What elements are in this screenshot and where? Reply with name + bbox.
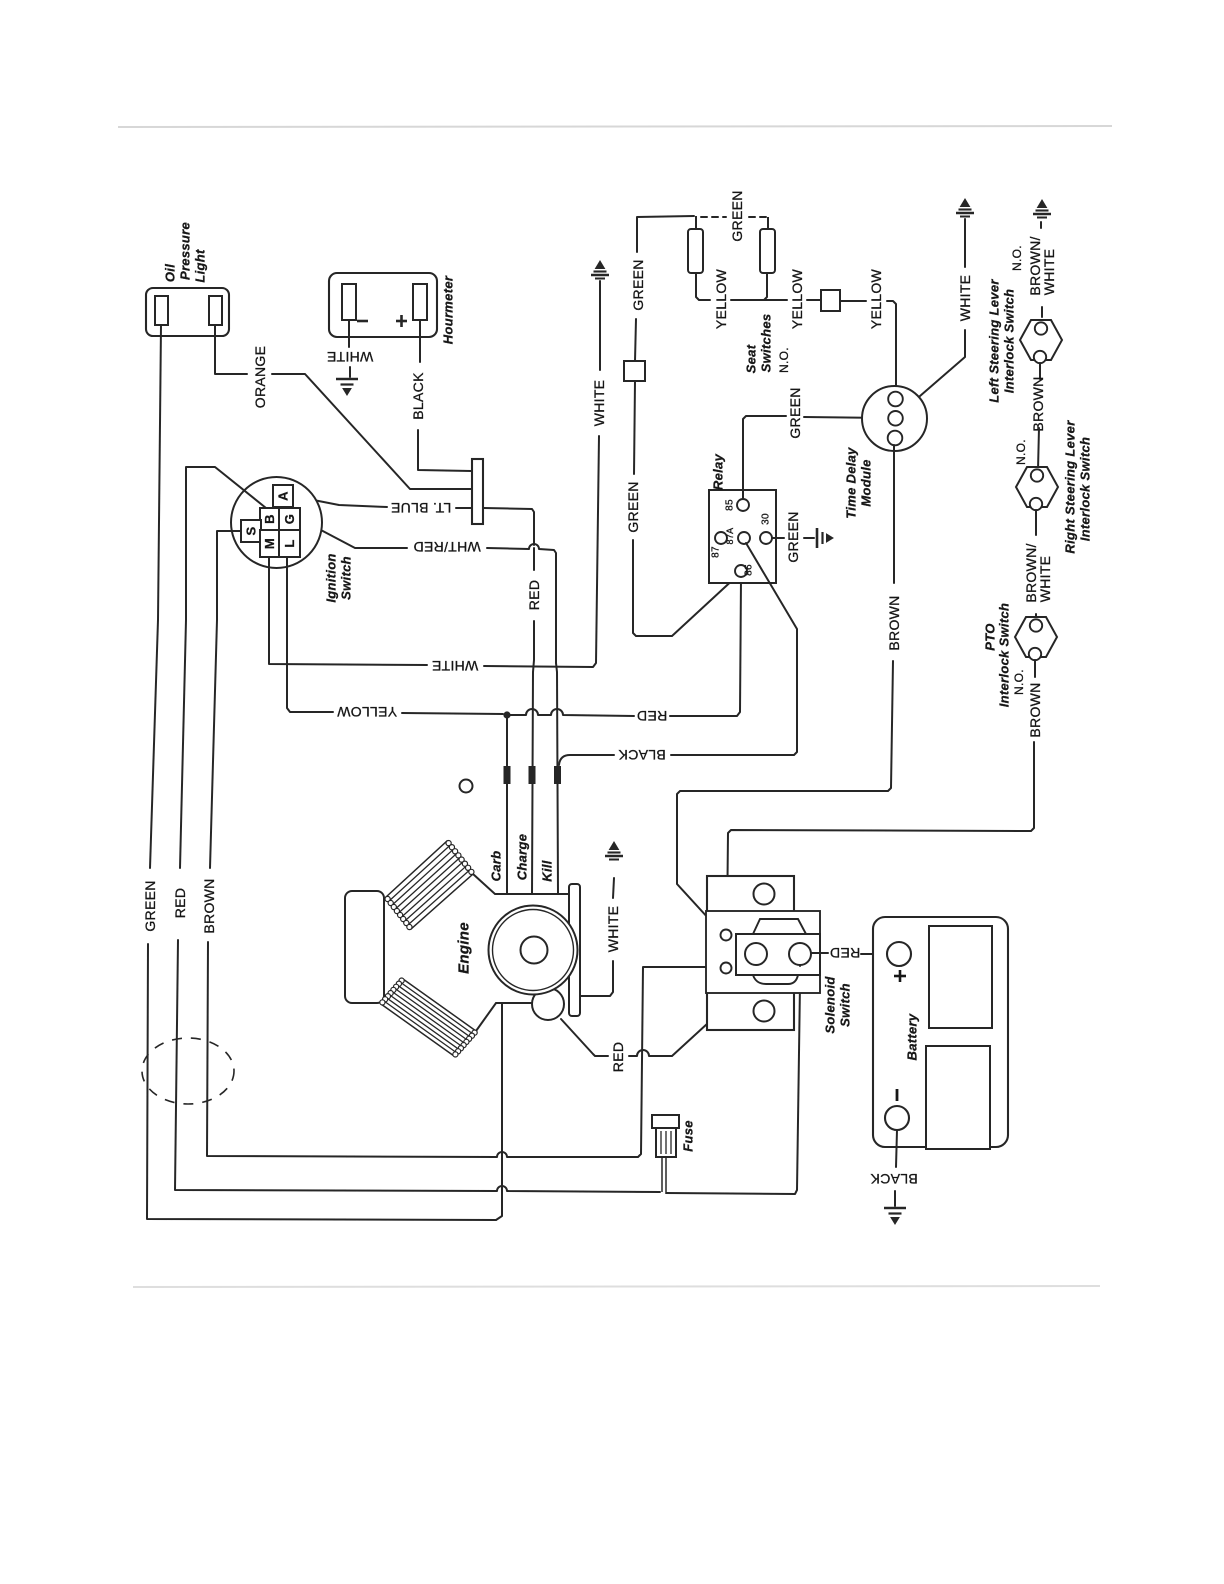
svg-text:YELLOW: YELLOW [789,268,805,329]
ignition switch [231,477,322,568]
solenoid body section [706,911,820,993]
battery plus sign [894,970,906,982]
svg-text:WHITE: WHITE [1037,556,1053,603]
wire BROWN between hexes upper [1039,363,1041,379]
chassis arrow WHITE tdm [956,199,974,217]
wire GREEN branch to square [635,319,636,361]
ground hourmeter [336,379,358,395]
wire BLACK hourmeter to junction bar [418,430,471,471]
solenoid small pin 1 [721,930,732,941]
engine mounting bracket bar [569,884,580,1016]
svg-text:GREEN: GREEN [142,880,158,931]
wire GREEN dashed seat link b [749,216,768,218]
svg-text:YELLOW: YELLOW [336,704,397,720]
solenoid mounting hole bottom [754,1001,775,1022]
relay pin 30 [760,532,772,544]
wire GREEN square to label [634,381,635,474]
svg-text:30: 30 [761,513,772,525]
wire GREEN riser to engine [496,1004,502,1220]
svg-text:B: B [262,514,277,524]
svg-text:A: A [276,491,291,501]
wire GREEN oil-light vertical upper [150,325,161,868]
svg-text:87A: 87A [725,528,735,545]
free connector circle [460,780,473,793]
svg-text:Pressure: Pressure [178,222,193,280]
wire YELLOW seat mid [731,299,787,301]
wire WHITE riser top [599,281,601,370]
wire hourmeter minus lead [348,320,350,347]
oil pressure light [146,288,229,336]
svg-text:Time Delay: Time Delay [844,447,859,519]
svg-text:LT. BLUE: LT. BLUE [391,500,452,516]
solenoid keyhole cap [753,919,806,984]
right steering lever interlock switch [1016,467,1058,510]
wire RED solenoid stub [811,952,828,954]
wire interlock chain stub1 [1041,307,1043,317]
svg-text:GREEN: GREEN [630,259,646,310]
wire GREEN seat-switch branch top [637,216,694,252]
svg-text:WHITE: WHITE [1041,249,1057,296]
svg-text:Engine: Engine [456,922,473,974]
wire YELLOW ignition L segment [287,557,333,712]
wire GREEN 30 ground stub [804,537,814,539]
time delay module [862,386,927,451]
fuse stem [662,1157,666,1192]
wire GREEN relay 30 stub [772,537,784,539]
wire hourmeter ground stub [349,367,351,377]
solenoid small pin 2 [721,963,732,974]
svg-text:RED: RED [610,1042,626,1072]
left steering lever interlock switch [1020,320,1062,363]
solenoid terminal stud right [789,943,811,965]
wire BROWN ignition S upper [210,531,241,868]
svg-text:PTO: PTO [983,623,998,650]
svg-text:GREEN: GREEN [787,387,803,438]
svg-text:Carb: Carb [489,851,504,882]
svg-text:N.O.: N.O. [777,347,791,373]
wire LT. BLUE bar to charge drop [484,508,534,545]
svg-text:Module: Module [859,459,874,506]
svg-text:WHITE: WHITE [591,380,607,427]
battery minus terminal [885,1106,909,1130]
wire BROWN pto to solenoid [727,742,1034,929]
svg-text:87: 87 [711,546,722,558]
wire YELLOW to junction dot [402,713,503,714]
wire RED ignition B upper [180,467,266,868]
junction bar connector [472,459,483,524]
wire RED up to relay pin 86 [670,578,741,716]
wire chain stub to PTO [1035,614,1037,620]
svg-text:RED: RED [172,888,188,918]
wire BLACK elbow into Kill [559,755,614,765]
wire Kill lower [556,663,558,894]
wire GREEN bottom run [147,1218,496,1220]
wire YELLOW to square [807,299,820,301]
svg-text:Solenoid: Solenoid [823,976,838,1034]
wire BLACK relay 87A drop [671,543,797,755]
svg-text:YELLOW: YELLOW [868,268,884,329]
wire BROWN/WHITE mid stub [1035,510,1037,535]
connector square yellow [821,290,840,311]
wire dash below chain arrow [1040,222,1042,228]
ground battery [884,1208,906,1224]
wire WHT/RED from ignition G [300,519,407,548]
svg-text:Seat: Seat [744,344,759,373]
connector pin mark Kill [554,766,561,784]
engine block left housing [345,891,384,1003]
wire RED lower run [175,940,660,1192]
wire WHITE tdm riser [964,219,966,267]
wire ORANGE from oil light right pin [215,325,247,374]
svg-text:BROWN: BROWN [201,878,217,933]
svg-text:Switch: Switch [838,983,853,1027]
svg-text:Interlock Switch: Interlock Switch [1078,437,1093,542]
wire YELLOW square to label [840,300,866,302]
wire BROWN lower loop [207,942,713,1157]
wire WHITE tdm diagonal [920,330,965,396]
wire GREEN dashed seat link a [701,216,726,218]
svg-text:M: M [262,538,277,549]
wire WHITE mid segment [484,436,599,667]
svg-text:Ignition: Ignition [324,553,339,602]
hourmeter [329,273,437,337]
engine flywheel inner rim [493,910,574,991]
wire RED into battery plus [861,953,886,955]
wire YELLOW seat sw1 down [696,273,710,300]
svg-text:WHITE: WHITE [605,906,621,953]
wire Charge upper [533,548,535,570]
wire BROWN tdm drop lower [677,661,893,931]
battery plus terminal [887,942,911,966]
relay box [709,490,776,583]
wire BROWN tdm drop upper [893,445,895,583]
svg-text:BLACK: BLACK [870,1171,918,1187]
svg-text:BLACK: BLACK [618,747,666,763]
ground relay 30 [817,528,833,548]
engine upper coil winding [385,841,474,930]
faint scan line bottom [133,1286,1100,1287]
solenoid switch mounting plate [707,876,794,1030]
svg-text:Switches: Switches [759,314,774,373]
svg-text:N.O.: N.O. [1012,669,1026,695]
engine hub [521,937,548,964]
svg-text:GREEN: GREEN [625,481,641,532]
relay pin 87A [738,532,750,544]
chassis arrow engine WHITE [605,842,623,860]
wire BLACK battery upper [896,1130,897,1167]
svg-text:BROWN: BROWN [1027,682,1043,737]
svg-text:S: S [244,526,259,535]
solenoid mounting hole top [754,884,775,905]
seat switch 2 [760,217,775,273]
svg-text:Charge: Charge [515,834,530,881]
wire GREEN to relay 86 diagonal [633,540,737,636]
fuse [652,1115,679,1157]
relay pin 86 [735,565,747,577]
svg-text:Oil: Oil [163,264,178,282]
solenoid terminal stud left [745,943,767,965]
engine lower coil winding [380,978,477,1057]
connector pin mark Carb [504,766,511,784]
relay pin 87 [715,532,727,544]
svg-text:Left Steering Lever: Left Steering Lever [987,279,1002,403]
wire RED run to relay 86 (hops) [510,709,634,716]
svg-text:ORANGE: ORANGE [252,346,268,408]
svg-text:WHITE: WHITE [957,275,973,322]
svg-text:RED: RED [830,945,860,961]
dashed harness ellipse [142,1038,234,1104]
svg-text:Switch: Switch [339,556,354,600]
chassis arrow WHITE riser [591,261,609,279]
wire GREEN vertical lower [147,944,148,1218]
faint scan line top [118,126,1112,127]
wire WHITE engine riser [613,878,614,898]
wire WHITE engine stub [580,961,613,996]
svg-text:Interlock Switch: Interlock Switch [1002,289,1017,394]
battery minus sign [896,1089,899,1101]
wire ORANGE diagonal to junction bar [272,374,471,489]
svg-text:Relay: Relay [711,453,726,490]
wire LT. BLUE from ignition A [293,496,387,507]
svg-text:L: L [282,539,297,547]
battery [873,917,1008,1149]
wire RED fuse to solenoid riser [666,966,800,1194]
engine flywheel outer [489,906,578,995]
svg-text:86: 86 [744,564,755,576]
wire GREEN label to tdm [804,417,888,418]
wire LT. BLUE into bar [456,507,471,509]
wire YELLOW seat sw2 down [764,273,767,300]
svg-text:YELLOW: YELLOW [713,268,729,329]
wire RED engine to solenoid [629,980,755,1056]
svg-text:RED: RED [637,708,667,724]
svg-text:Right Steering Lever: Right Steering Lever [1063,420,1078,554]
svg-text:WHITE: WHITE [432,658,479,674]
svg-text:BROWN: BROWN [1030,376,1046,431]
svg-text:85: 85 [725,499,736,511]
wire WHITE ignition M segment [269,557,427,665]
svg-text:N.O.: N.O. [1010,245,1024,271]
svg-text:G: G [282,514,297,524]
junction dot carb tap [503,711,510,718]
wire Charge lower [532,621,534,894]
svg-text:GREEN: GREEN [785,511,801,562]
svg-text:Interlock Switch: Interlock Switch [997,603,1012,708]
svg-text:Light: Light [193,249,208,283]
svg-text:Hourmeter: Hourmeter [441,275,456,344]
svg-text:WHITE: WHITE [327,349,374,365]
svg-text:BROWN: BROWN [886,595,902,650]
solenoid terminal block [736,934,820,975]
engine body outline [473,874,569,894]
connector pin mark Charge [529,766,536,784]
chassis arrow interlock chain [1033,200,1051,218]
svg-text:RED: RED [526,580,542,610]
svg-text:Fuse: Fuse [681,1120,696,1152]
svg-text:Kill: Kill [540,860,555,882]
svg-text:BLACK: BLACK [410,372,426,420]
wire GREEN relay 85 riser [743,416,786,499]
wire solenoid right stud drop [799,965,801,966]
svg-text:Battery: Battery [905,1013,920,1060]
connector square green branch [624,361,645,381]
wire WHT/RED to kill drop [487,544,556,663]
wire RED engine diagonal [561,1019,608,1056]
wire BROWN below PTO upper [1034,660,1036,677]
wire BLACK battery lower [894,1191,896,1206]
PTO interlock switch [1015,617,1057,660]
svg-text:WHT/RED: WHT/RED [413,539,480,555]
svg-text:N.O.: N.O. [1014,439,1028,465]
engine starter bulge [532,988,564,1020]
relay pin 85 [737,499,749,511]
wire BLACK hourmeter upper [419,320,421,362]
wire Carb [506,715,508,894]
seat switch 1 [688,216,703,273]
wire BROWN between hexes lower [1038,428,1039,470]
wire YELLOW to time delay module [887,301,896,392]
svg-text:GREEN: GREEN [729,190,745,241]
